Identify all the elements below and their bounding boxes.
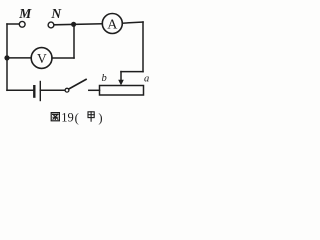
ammeter A <box>102 14 122 34</box>
wire jog to slider <box>121 71 143 73</box>
wire left junction to voltmeter <box>7 57 31 59</box>
battery short plate <box>33 86 35 96</box>
svg-text:): ) <box>98 111 102 125</box>
wire left rail to battery <box>7 89 33 91</box>
svg-text:a: a <box>144 74 149 85</box>
svg-text:V: V <box>37 51 47 66</box>
svg-text:19: 19 <box>61 110 73 124</box>
resistor box (rheostat) <box>100 86 144 96</box>
node junction left <box>4 55 9 60</box>
svg-text:(: ( <box>75 111 79 125</box>
wire switch to rheostat <box>89 89 100 91</box>
svg-text:A: A <box>107 18 118 33</box>
battery long plate <box>39 82 41 101</box>
node junction top <box>71 22 76 27</box>
svg-text:N: N <box>50 6 62 21</box>
wire N to ammeter <box>54 24 102 25</box>
voltmeter V <box>31 48 52 69</box>
wire battery to switch <box>40 89 65 91</box>
wire voltmeter to right branch <box>52 57 74 59</box>
switch lever <box>69 79 86 89</box>
switch pivot <box>65 88 69 92</box>
caption glyph 甲 <box>88 112 94 121</box>
wire junction down to voltmeter branch <box>73 24 75 58</box>
wire left rail vertical <box>6 24 8 90</box>
wire ammeter to right corner <box>122 22 143 23</box>
svg-text:M: M <box>18 6 32 21</box>
terminal M <box>19 21 25 27</box>
rheostat slider arrow <box>120 72 122 82</box>
svg-text:b: b <box>102 73 107 84</box>
wire right rail vertical <box>142 22 144 72</box>
wire top-left horizontal <box>7 23 19 25</box>
caption glyph 图 <box>51 113 59 121</box>
terminal N <box>48 22 54 28</box>
